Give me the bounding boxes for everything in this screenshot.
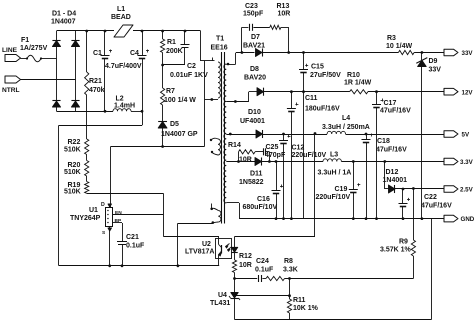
svg-text:L2: L2 xyxy=(116,96,124,103)
svg-text:510K: 510K xyxy=(64,169,81,176)
svg-text:100 1/4 W: 100 1/4 W xyxy=(164,97,196,104)
diode bridge D1-D4 1N4007 label xyxy=(51,11,76,26)
svg-text:470pF: 470pF xyxy=(265,152,286,159)
wire drain xyxy=(111,145,205,207)
resistor R20 510K xyxy=(64,155,89,177)
svg-text:10 1/4W: 10 1/4W xyxy=(386,43,412,50)
svg-text:R3: R3 xyxy=(387,35,396,42)
svg-text:680uF/10V: 680uF/10V xyxy=(243,204,278,211)
capacitor C21 0.1uF xyxy=(113,223,145,266)
svg-text:10R: 10R xyxy=(239,157,252,164)
diode D11 1N5822 xyxy=(239,157,264,186)
resistor R8 3.3K xyxy=(266,258,298,281)
svg-text:NTRL: NTRL xyxy=(2,87,20,94)
wire top DC+ rail xyxy=(57,30,201,32)
svg-text:D5: D5 xyxy=(170,121,179,128)
svg-text:TNY264P: TNY264P xyxy=(70,215,101,222)
svg-text:12V: 12V xyxy=(462,90,474,97)
svg-text:BEAD: BEAD xyxy=(111,14,131,21)
svg-text:C18: C18 xyxy=(377,138,390,145)
wire opto light arrows xyxy=(226,244,232,252)
wire GND pin xyxy=(226,203,239,219)
svg-text:10R: 10R xyxy=(278,11,291,18)
transformer T1 bias winding xyxy=(210,208,221,224)
svg-text:C21: C21 xyxy=(126,234,139,241)
svg-text:0.01uF 1KV: 0.01uF 1KV xyxy=(170,72,208,79)
wire fuse to bridge xyxy=(41,58,57,60)
svg-text:3.57K 1%: 3.57K 1% xyxy=(380,247,412,254)
svg-text:D12: D12 xyxy=(386,169,399,176)
capacitor C24 0.1uF xyxy=(255,258,274,282)
wire 2.5V row xyxy=(385,162,445,191)
diode D7 BAV21 xyxy=(243,34,265,57)
svg-text:R20: R20 xyxy=(68,162,81,169)
pin D label xyxy=(101,202,112,208)
wire GND rail xyxy=(239,217,444,220)
svg-text:LTV817A: LTV817A xyxy=(185,249,214,256)
diode D12 1N4001 xyxy=(383,169,408,193)
node 33V output xyxy=(444,49,473,57)
svg-text:EN: EN xyxy=(115,210,122,216)
svg-text:D: D xyxy=(101,202,105,208)
svg-text:3.3V: 3.3V xyxy=(460,159,474,166)
svg-text:5V: 5V xyxy=(462,132,470,139)
svg-text:BAV21: BAV21 xyxy=(243,43,265,50)
svg-text:C11: C11 xyxy=(305,95,318,102)
svg-text:R8: R8 xyxy=(284,258,293,265)
wire feedback row right xyxy=(285,277,414,280)
resistor R11 10K 1% xyxy=(287,279,318,320)
svg-text:D11: D11 xyxy=(250,171,263,178)
fuse F1 1A/275V xyxy=(20,37,48,62)
pin BP xyxy=(115,218,122,224)
capacitor C1 4.7uF/400V xyxy=(93,30,142,113)
transformer T1 primary winding xyxy=(218,62,220,98)
svg-text:27uF/50V: 27uF/50V xyxy=(310,72,341,79)
svg-text:1R 1/4W: 1R 1/4W xyxy=(344,80,372,87)
wire bottom DC- rail xyxy=(57,111,143,113)
svg-text:4.7uF/400V: 4.7uF/400V xyxy=(105,63,142,70)
svg-text:D10: D10 xyxy=(248,109,261,116)
svg-text:150pF: 150pF xyxy=(243,11,264,18)
wire bottom rail xyxy=(235,219,432,320)
svg-text:R9: R9 xyxy=(399,239,408,246)
wire 3.3V row xyxy=(226,160,444,163)
svg-text:3.3K: 3.3K xyxy=(283,267,298,274)
svg-text:LINE: LINE xyxy=(2,47,18,54)
node 2.5V output xyxy=(444,186,474,194)
svg-text:1N4007: 1N4007 xyxy=(51,19,76,26)
capacitor C17 47uF/16V xyxy=(372,92,411,219)
capacitor C2 0.01uF 1KV xyxy=(170,30,208,79)
wire EN net riser xyxy=(163,193,219,236)
capacitor C18 47uF/16V xyxy=(362,134,408,219)
capacitor C4 xyxy=(130,30,149,113)
svg-text:C25: C25 xyxy=(266,144,279,151)
svg-text:T1: T1 xyxy=(216,36,224,43)
svg-text:1A/275V: 1A/275V xyxy=(20,45,48,52)
svg-text:10R: 10R xyxy=(239,262,252,269)
svg-text:2.5V: 2.5V xyxy=(460,187,474,194)
capacitor C23 150pF snubber xyxy=(242,3,264,53)
diode D1 xyxy=(52,41,60,47)
svg-text:C12: C12 xyxy=(292,145,305,152)
diode D9 zener 33V xyxy=(416,53,441,219)
ferrite bead L1 xyxy=(111,6,133,37)
svg-text:GND: GND xyxy=(461,216,474,223)
svg-text:3.3uH / 1A: 3.3uH / 1A xyxy=(318,170,352,177)
svg-text:200K: 200K xyxy=(166,48,183,55)
resistor R13 10R snubber xyxy=(253,3,290,53)
capacitor C22 47uF/16V xyxy=(399,189,453,219)
svg-text:D7: D7 xyxy=(251,34,260,41)
svg-text:0.1uF: 0.1uF xyxy=(126,243,145,250)
diode D3 xyxy=(52,101,60,108)
resistor R3 10 1/4W xyxy=(386,35,414,55)
svg-text:33V: 33V xyxy=(462,50,474,57)
svg-text:R10: R10 xyxy=(347,72,360,79)
svg-text:L4: L4 xyxy=(342,115,350,122)
transistor U2 phototransistor xyxy=(219,236,222,266)
node 5V output xyxy=(444,131,470,139)
node 12V output xyxy=(444,88,473,96)
inductor L4 3.3uH/250mA xyxy=(322,115,370,134)
svg-text:470k: 470k xyxy=(89,87,105,94)
svg-text:R1: R1 xyxy=(167,39,176,46)
svg-text:C16: C16 xyxy=(257,196,270,203)
svg-text:1N4007 GP: 1N4007 GP xyxy=(161,131,198,138)
svg-text:1N4001: 1N4001 xyxy=(383,177,408,184)
svg-text:C2: C2 xyxy=(187,63,196,70)
op-amp U1 TNY264P package xyxy=(70,207,113,227)
transformer T1 primary lower winding xyxy=(210,138,221,155)
capacitor C16 680uF/10V xyxy=(243,162,284,219)
svg-text:R12: R12 xyxy=(239,253,252,260)
svg-text:3.3uH / 250mA: 3.3uH / 250mA xyxy=(322,124,370,131)
svg-text:U1: U1 xyxy=(89,207,98,214)
svg-text:10K 1%: 10K 1% xyxy=(293,305,319,312)
diode D8 BAV20 xyxy=(244,66,266,96)
svg-text:C1: C1 xyxy=(93,50,102,57)
wire clamp junction xyxy=(161,64,185,67)
svg-text:C24: C24 xyxy=(256,258,269,265)
wire LED anode row xyxy=(235,132,317,236)
svg-text:EE16: EE16 xyxy=(211,45,228,52)
wire 12V rail xyxy=(264,90,445,93)
wire primary vertical xyxy=(204,61,206,147)
wire feedback row left xyxy=(233,277,257,280)
diode D5 1N4007 GP xyxy=(158,121,198,147)
diode D4 xyxy=(71,101,79,108)
resistor R9 3.57K 1% xyxy=(380,187,416,278)
svg-text:R22: R22 xyxy=(68,139,81,146)
wire 5V row xyxy=(226,133,444,136)
svg-text:TL431: TL431 xyxy=(210,300,230,307)
resistor R1 200K xyxy=(161,30,183,65)
svg-text:D9: D9 xyxy=(429,58,438,65)
svg-text:47uF/16V: 47uF/16V xyxy=(376,147,407,154)
resistor R12 10R xyxy=(232,253,252,279)
wire 33V row xyxy=(226,51,444,65)
svg-text:D1 - D4: D1 - D4 xyxy=(52,11,76,18)
svg-text:1N5822: 1N5822 xyxy=(239,179,264,186)
svg-text:C4: C4 xyxy=(130,50,139,57)
svg-text:C23: C23 xyxy=(245,3,258,10)
svg-text:R21: R21 xyxy=(89,78,102,85)
svg-text:R14: R14 xyxy=(228,142,241,149)
resistor R22 510K xyxy=(64,139,89,155)
wire C24 to R8 xyxy=(262,278,266,280)
capacitor C15 27uF/50V xyxy=(299,53,341,219)
svg-text:0.1uF: 0.1uF xyxy=(255,267,274,274)
pin EN xyxy=(113,210,163,216)
resistor R14 10R snubber xyxy=(228,142,255,164)
svg-text:R7: R7 xyxy=(166,88,175,95)
wire LINE to fuse xyxy=(21,58,28,60)
svg-text:1.4mH: 1.4mH xyxy=(114,103,135,110)
wire primary bottom pin xyxy=(205,98,219,101)
transformer T1 secondary winding xyxy=(224,64,226,203)
svg-text:C17: C17 xyxy=(384,100,397,107)
svg-text:510K: 510K xyxy=(64,147,81,154)
wire top rail to primary xyxy=(201,31,215,61)
svg-text:180uF/16V: 180uF/16V xyxy=(305,106,340,113)
svg-text:510K: 510K xyxy=(64,189,81,196)
diode D10 UF4001 xyxy=(240,109,265,138)
svg-text:C22: C22 xyxy=(424,194,437,201)
pin S xyxy=(102,226,112,265)
inductor L3 3.3uH/1A xyxy=(318,152,352,177)
wire TL431 ref row xyxy=(233,294,289,297)
wire NTRL to bridge xyxy=(21,79,76,81)
transistor U4 TL431 xyxy=(210,279,240,320)
node LINE input terminal xyxy=(2,47,21,62)
wire sense row xyxy=(87,193,164,195)
resistor R10 1R 1/4W xyxy=(344,72,372,94)
svg-text:U2: U2 xyxy=(202,241,211,248)
svg-text:BP: BP xyxy=(115,218,122,224)
wire 12V tap xyxy=(226,92,257,103)
svg-text:F1: F1 xyxy=(21,37,29,44)
resistor R19 510K xyxy=(64,176,89,196)
svg-text:R11: R11 xyxy=(293,297,306,304)
capacitor C19 220uF/10V xyxy=(316,162,361,219)
svg-text:UF4001: UF4001 xyxy=(240,118,265,125)
wire DC- return to source rail xyxy=(59,111,143,265)
transformer T1 EE16 label xyxy=(211,36,228,52)
resistor R7 100 1/4W xyxy=(161,65,197,122)
svg-text:R13: R13 xyxy=(277,3,290,10)
transformer T1 core xyxy=(222,52,225,224)
svg-text:220uF/10V: 220uF/10V xyxy=(316,194,351,201)
node GND output xyxy=(444,215,474,223)
svg-text:47uF/16V: 47uF/16V xyxy=(421,203,452,210)
svg-text:U4: U4 xyxy=(218,292,227,299)
wire bias top riser xyxy=(211,204,213,209)
node 3.3V output xyxy=(444,158,474,166)
wire bridge left column xyxy=(56,31,58,111)
svg-text:C19: C19 xyxy=(335,186,348,193)
wire bridge right column xyxy=(75,31,77,111)
node NTRL input terminal xyxy=(2,76,21,94)
svg-text:BAV20: BAV20 xyxy=(244,75,266,82)
svg-text:C15: C15 xyxy=(311,64,324,71)
svg-text:L3: L3 xyxy=(330,152,338,159)
capacitor C11 180uF/16V xyxy=(287,92,340,219)
svg-text:D8: D8 xyxy=(250,66,259,73)
inductor L2 1.4mH xyxy=(113,96,135,112)
resistor R21 470k xyxy=(85,30,105,139)
diode D2 xyxy=(71,41,79,47)
LED U2 optocoupler diode xyxy=(231,237,238,260)
op-amp U2 LTV817A package xyxy=(185,239,232,259)
svg-text:33V: 33V xyxy=(429,67,442,74)
wire source rail xyxy=(59,264,219,267)
svg-text:220uF/10V: 220uF/10V xyxy=(292,152,327,159)
capacitor C12 220uF/10V xyxy=(279,134,326,219)
svg-text:47uF/16V: 47uF/16V xyxy=(380,108,411,115)
wire bias return riser xyxy=(178,223,213,265)
svg-text:L1: L1 xyxy=(117,6,125,13)
capacitor C25 470pF xyxy=(255,144,286,163)
